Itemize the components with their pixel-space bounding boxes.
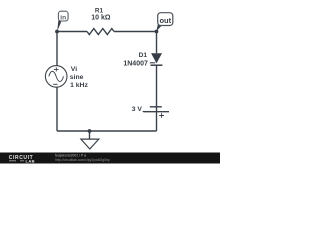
wire top-right horizontal (resistor to out node) xyxy=(114,31,157,33)
svg-text:out: out xyxy=(159,16,171,25)
watermark bar xyxy=(0,153,220,164)
source V1 : minus sign xyxy=(53,83,58,85)
wire right vertical (out node to diode anode) xyxy=(156,32,158,54)
source V1 : sine wave xyxy=(49,71,64,81)
svg-text:Vi: Vi xyxy=(71,66,77,73)
node ground junction dot xyxy=(88,129,92,133)
wire right vertical (diode cathode to battery top) xyxy=(156,65,158,111)
wire left vertical (in node to source top) xyxy=(56,32,58,66)
wire bottom rail xyxy=(57,130,157,132)
resistor R1 xyxy=(87,29,114,35)
flag in : box xyxy=(58,11,68,21)
source V1 : plus sign xyxy=(54,67,59,71)
diode D1 : label tick xyxy=(150,62,155,64)
ground : stem xyxy=(89,131,91,139)
svg-text:R1: R1 xyxy=(95,7,104,14)
battery V2 : plus sign xyxy=(159,113,164,118)
svg-text:10 kΩ: 10 kΩ xyxy=(91,15,111,22)
wire top-left horizontal (node to resistor) xyxy=(57,31,87,33)
wire left vertical (source bottom to bottom rail) xyxy=(56,87,58,131)
svg-text:http://circuitlab.com/c/py2yxd: http://circuitlab.com/c/py2yxdd2g0hp xyxy=(55,158,110,162)
battery V2 : top plate (short) xyxy=(150,106,162,108)
wire right vertical (battery bottom to bottom rail) xyxy=(156,112,158,131)
watermark logo LAB line xyxy=(9,160,24,162)
svg-text:1N4007: 1N4007 xyxy=(123,60,148,67)
svg-text:sine: sine xyxy=(70,74,84,81)
battery V2 : bottom plate (long) xyxy=(144,111,170,113)
source V1 : circle body xyxy=(45,66,67,88)
diode D1 : triangle (anode) xyxy=(151,53,162,63)
flag out : box xyxy=(158,13,173,26)
svg-text:LAB: LAB xyxy=(26,159,35,164)
node in (junction dot) xyxy=(55,30,59,34)
node out (junction dot) xyxy=(155,30,159,34)
diode D1 : cathode bar xyxy=(151,64,163,66)
ground : triangle xyxy=(81,139,99,149)
flag in : pointer xyxy=(57,20,61,31)
battery V2 : label tick xyxy=(143,111,150,113)
flag out : pointer xyxy=(156,24,161,32)
svg-text:3 V: 3 V xyxy=(132,106,143,113)
svg-text:D1: D1 xyxy=(139,52,148,59)
svg-text:in: in xyxy=(60,14,66,21)
svg-text:1 kHz: 1 kHz xyxy=(70,82,88,89)
